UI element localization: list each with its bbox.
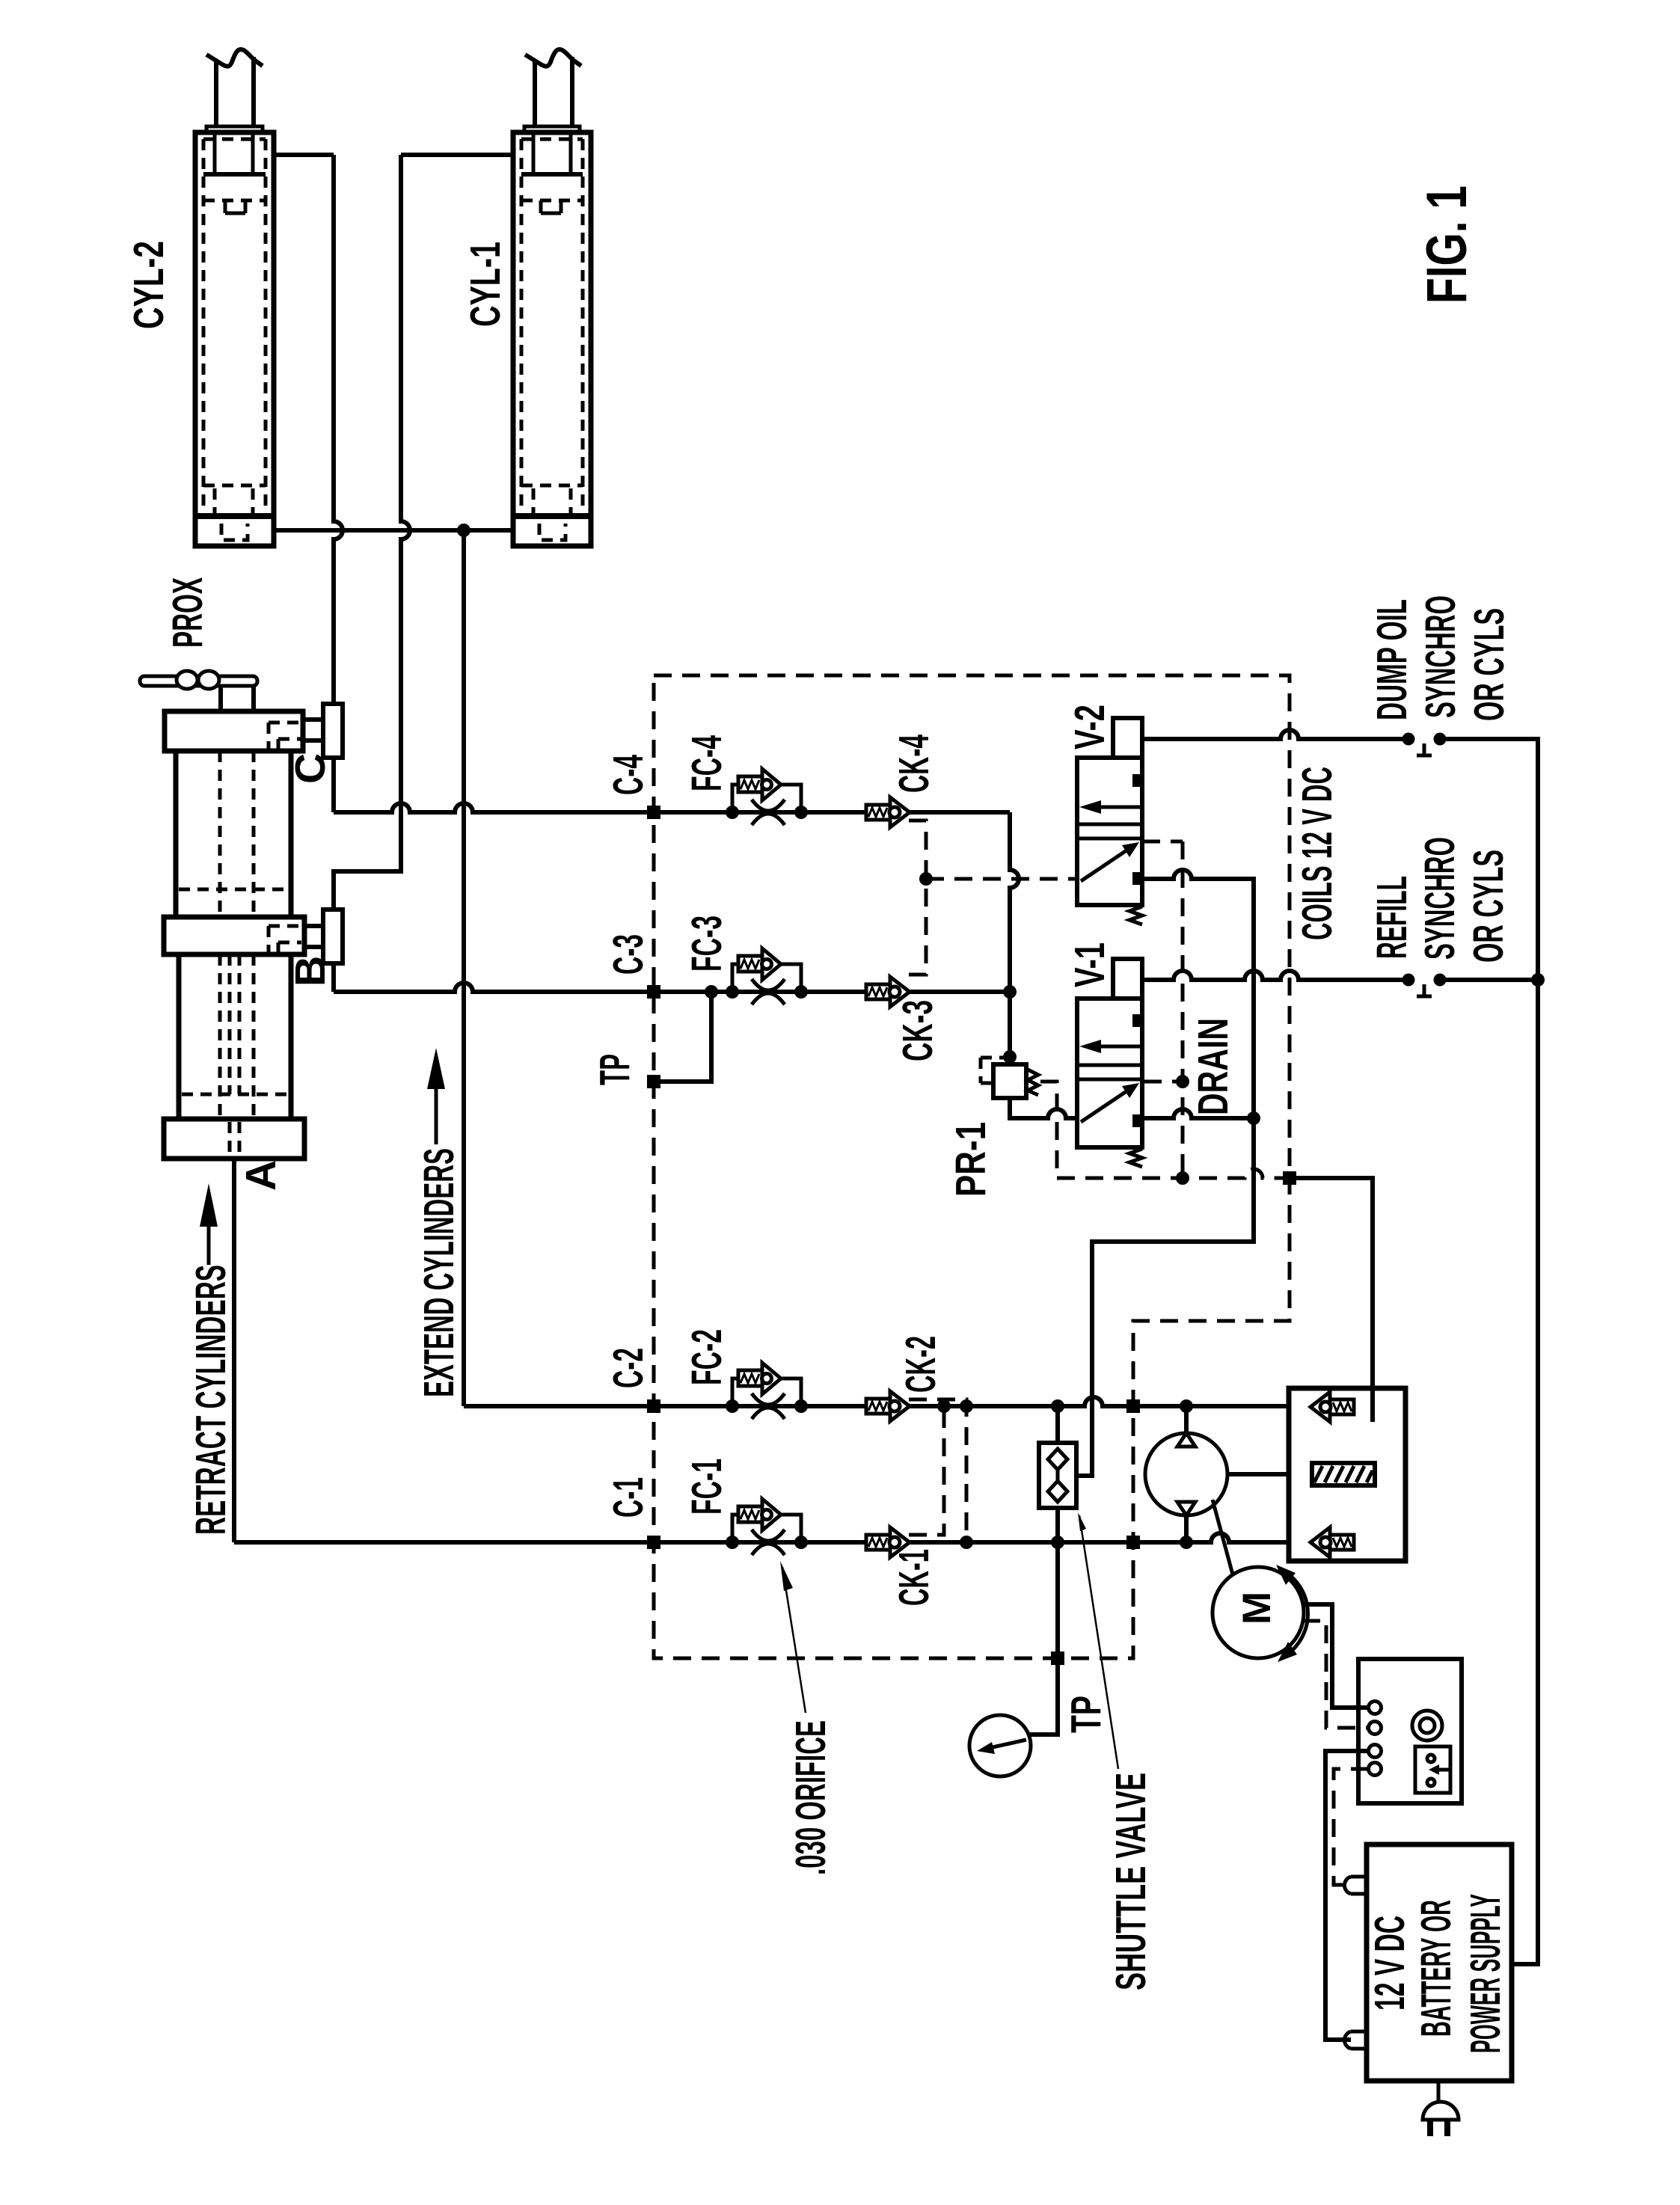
switch DUMP — [1402, 733, 1447, 756]
svg-text:CK-4: CK-4 — [890, 735, 938, 793]
port drain on enclosure — [1283, 1171, 1296, 1185]
svg-text:COILS 12 V DC: COILS 12 V DC — [1293, 767, 1341, 940]
power plug — [1423, 2081, 1459, 2136]
svg-text:V-2: V-2 — [1066, 705, 1114, 749]
wire refill switch to rail — [1445, 978, 1538, 982]
wire V-2 tank line — [1076, 870, 1254, 1476]
wire CYL-1 top to synchro port B — [334, 155, 410, 910]
svg-text:CK-2: CK-2 — [897, 1336, 945, 1393]
svg-text:C-3: C-3 — [604, 934, 652, 975]
svg-text:C-4: C-4 — [604, 755, 652, 795]
annotation arrow RETRACT CYLINDERS — [200, 1183, 218, 1265]
svg-text:POWER SUPPLY: POWER SUPPLY — [1462, 1894, 1509, 2053]
control box — [1358, 1659, 1462, 1803]
wire V-1 pilot dashed stub — [1144, 1080, 1183, 1084]
svg-text:FC-1: FC-1 — [683, 1459, 731, 1515]
wire drain dashed to tank port — [1040, 1082, 1283, 1185]
svg-text:EXTEND CYLINDERS: EXTEND CYLINDERS — [415, 1148, 463, 1397]
svg-text:V-1: V-1 — [1066, 942, 1114, 987]
cylinder CYL-1 — [513, 49, 591, 546]
leader .030 ORIFICE — [780, 1561, 806, 1713]
shuttle valve — [1039, 1406, 1076, 1542]
pilot dashed CK-2 cross line — [909, 1399, 973, 1549]
pilot dashed CK-1 cross line — [909, 1406, 944, 1535]
svg-text:TP: TP — [591, 1054, 639, 1085]
motor M — [1213, 1565, 1307, 1662]
motor shaft — [1213, 1500, 1233, 1574]
svg-text:A: A — [237, 1160, 285, 1191]
wire CK-4 outlet to junction — [1010, 812, 1019, 1064]
flow control FC-4 — [726, 769, 808, 825]
svg-text:SYNCHRO: SYNCHRO — [1417, 595, 1465, 718]
wire synchro B to line C-3 — [331, 963, 336, 992]
svg-text:DUMP OIL: DUMP OIL — [1368, 599, 1416, 720]
svg-text:B: B — [286, 956, 334, 987]
valve V-2 — [1077, 718, 1142, 924]
svg-text:CK-1: CK-1 — [890, 1549, 938, 1606]
port C-1 on enclosure — [647, 1536, 660, 1549]
synchro port B fitting — [303, 910, 343, 963]
battery 12 V DC — [1344, 1844, 1512, 2081]
check valve CK-1 — [866, 1527, 910, 1557]
svg-text:FC-4: FC-4 — [683, 735, 731, 791]
check valve CK-2 — [866, 1391, 910, 1421]
wire V-1 solenoid to refill switch — [1142, 971, 1403, 980]
wire cylinder bottom ports — [274, 528, 513, 533]
svg-text:REFILL: REFILL — [1368, 876, 1416, 959]
svg-text:SHUTTLE VALVE: SHUTTLE VALVE — [1107, 1773, 1155, 1990]
wire TP branch — [660, 992, 711, 1082]
tank and filter assembly — [1289, 1388, 1405, 1561]
node CK-3 outlet junction — [1003, 985, 1017, 999]
tank filter — [1312, 1463, 1375, 1485]
node C-3 TP branch — [705, 985, 718, 999]
wire synchro C to line C-4 — [331, 758, 336, 812]
svg-text:RETRACT CYLINDERS: RETRACT CYLINDERS — [187, 1265, 235, 1535]
svg-text:PR-1: PR-1 — [947, 1122, 995, 1197]
svg-text:TP: TP — [1062, 1696, 1110, 1733]
switch REFILL — [1402, 974, 1447, 997]
synchro lower body — [179, 954, 291, 1119]
wire extend line down — [462, 530, 466, 1406]
port C-3 on enclosure — [647, 985, 660, 999]
wire dump switch to rail — [1445, 739, 1538, 974]
wire control box to battery dashed — [1334, 1769, 1369, 1885]
port C-1 inner boundary — [1126, 1536, 1140, 1549]
node V-1 pilot junction — [1176, 1075, 1189, 1088]
wire CYL-2 top port — [274, 153, 334, 157]
node cylinder bottoms junction — [457, 524, 470, 537]
svg-text:CK-3: CK-3 — [894, 1000, 942, 1061]
port C-4 on enclosure — [647, 806, 660, 819]
pressure gauge — [969, 1715, 1031, 1776]
annotation arrow EXTEND CYLINDERS — [427, 1048, 445, 1144]
wire V-2 solenoid to dump switch — [1142, 730, 1403, 739]
synchro cylinder top block — [165, 711, 303, 751]
node shuttle top junction — [1051, 1399, 1064, 1413]
node refill rail junction — [1531, 973, 1545, 987]
valve V-1 — [1077, 959, 1142, 1167]
flow control FC-1 — [726, 1499, 808, 1555]
pressure relief PR-1 — [981, 1058, 1038, 1098]
valve assembly dashed enclosure — [654, 675, 1290, 1658]
svg-text:FC-3: FC-3 — [683, 916, 731, 972]
check valve CK-4 — [866, 797, 910, 827]
svg-text:CYL-1: CYL-1 — [462, 242, 509, 327]
svg-text:M: M — [1235, 1592, 1279, 1625]
svg-text:FC-2: FC-2 — [683, 1329, 731, 1385]
wire shuttle to TP and gauge — [1029, 1542, 1058, 1735]
wire CYL-2 top to synchro port C — [334, 155, 343, 704]
synchro middle block — [164, 917, 304, 954]
wire rail down to battery — [1512, 986, 1538, 1964]
node V-1 tank junction — [1247, 1111, 1260, 1125]
svg-text:C-1: C-1 — [604, 1477, 652, 1518]
port C-2 inner boundary — [1126, 1399, 1140, 1413]
svg-text:SYNCHRO: SYNCHRO — [1416, 837, 1464, 960]
svg-text:PROX: PROX — [164, 577, 212, 648]
svg-text:12 V DC: 12 V DC — [1366, 1916, 1414, 2011]
svg-text:BATTERY OR: BATTERY OR — [1412, 1900, 1460, 2037]
node PR-1 inlet junction — [1003, 1050, 1017, 1064]
node pump bottom junction — [1180, 1536, 1193, 1549]
check valve CK-3 — [866, 977, 910, 1007]
port TP on enclosure — [647, 1075, 660, 1088]
svg-text:C: C — [286, 753, 334, 784]
svg-text:FIG. 1: FIG. 1 — [1415, 185, 1479, 304]
wire PR-1 outlet to V-1 — [1010, 1098, 1077, 1118]
synchro port C fitting — [303, 704, 343, 758]
wire motor power dashed — [1302, 1621, 1369, 1728]
wire line C-4 — [334, 803, 1010, 812]
svg-text:C-2: C-2 — [604, 1348, 652, 1388]
port TP bottom boundary — [1051, 1652, 1064, 1665]
wire control box to battery solid — [1325, 1751, 1369, 2040]
synchro upper body — [176, 751, 291, 917]
svg-text:.030 ORIFICE: .030 ORIFICE — [787, 1720, 835, 1875]
wire line C-3 — [334, 983, 1010, 992]
tank check valve upper — [1310, 1392, 1354, 1422]
wire line C-1 — [234, 1533, 1289, 1542]
svg-text:CYL-2: CYL-2 — [125, 241, 173, 329]
svg-text:OR CYLS: OR CYLS — [1465, 608, 1513, 721]
hydraulic pump — [1145, 1406, 1289, 1542]
flow control FC-3 — [726, 948, 808, 1005]
port C-2 on enclosure — [647, 1399, 660, 1413]
wire drain to tank — [1296, 1178, 1373, 1422]
wire synchro port A line — [232, 1159, 236, 1542]
wire V-1 tank line — [1142, 1109, 1254, 1118]
pilot dashed CK-4 CK-3 to V-2 — [909, 821, 1077, 975]
flow control FC-2 — [726, 1363, 808, 1419]
node pump top junction — [1180, 1399, 1193, 1413]
node shuttle bottom junction — [1051, 1536, 1064, 1549]
synchronizing cylinder PROX sensor — [140, 671, 257, 711]
wire V-2 pilot dashed vertical — [1142, 841, 1183, 1178]
wire line C-2 — [464, 1397, 1289, 1406]
wire CYL-1 top port — [401, 153, 513, 157]
leader SHUTTLE VALVE — [1078, 1512, 1118, 1769]
tank check valve lower — [1310, 1527, 1354, 1557]
cylinder CYL-2 — [195, 49, 274, 546]
wire motor power solid — [1302, 1604, 1369, 1708]
svg-text:DRAIN: DRAIN — [1189, 1018, 1237, 1115]
synchro bottom block — [164, 1119, 304, 1159]
svg-text:OR CYLS: OR CYLS — [1465, 850, 1512, 963]
